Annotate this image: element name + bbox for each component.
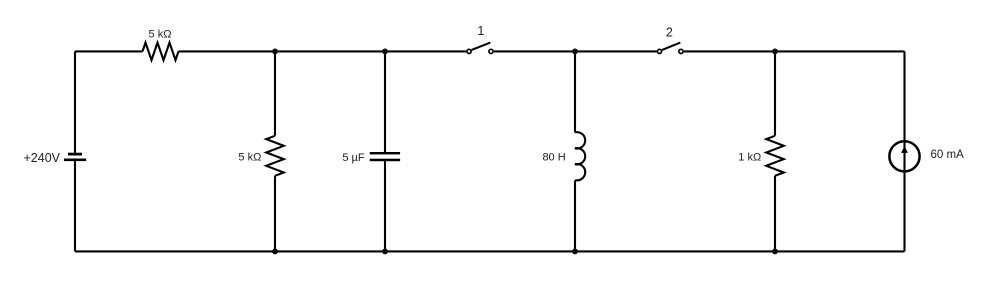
wire branch node D upper (to R3) (774, 51, 776, 135)
wire top (switch 1 to switch 2) through node at x=575 (494, 50, 657, 52)
wire branch node D lower (R3 to bottom) (774, 176, 776, 252)
wire branch node B upper (to C1) (384, 51, 386, 152)
switch S2 blade (662, 43, 680, 50)
resistor R2 5 kOhm vertical (266, 136, 284, 176)
wire branch node B lower (C1 to bottom) (384, 161, 386, 251)
svg-text:5 µF: 5 µF (342, 152, 365, 164)
svg-text:1 kΩ: 1 kΩ (738, 152, 761, 164)
svg-text:60 mA: 60 mA (931, 149, 965, 161)
resistor R3 1 kOhm vertical (766, 136, 784, 176)
current source I1 circle (889, 141, 919, 171)
capacitor C1 top plate (370, 152, 400, 154)
wire top (switch 2 to right rail) through node at x=775 (684, 50, 905, 52)
wire right rail (through current source I1) (903, 51, 905, 251)
battery V1 +240V short thick plate (68, 153, 82, 156)
resistor R1 5 kOhm horizontal (143, 43, 179, 61)
wire branch node C lower (L1 to bottom) (574, 180, 576, 251)
svg-text:1: 1 (477, 24, 484, 38)
wire branch node A lower (R2 to bottom) (274, 176, 276, 252)
inductor L1 80 H (575, 132, 585, 180)
wire top-left (left rail to R1) (75, 50, 143, 52)
junction dot bottom node A (272, 249, 278, 255)
svg-text:2: 2 (666, 26, 673, 40)
wire branch node C upper (to L1) (574, 51, 576, 132)
switch S2 left contact circle (657, 49, 661, 53)
svg-text:5 kΩ: 5 kΩ (238, 152, 261, 164)
junction dot top node B (382, 49, 388, 55)
switch S2 right contact circle (679, 49, 683, 53)
wire top (R1 to switch 1) through nodes at x=275 and x=385 (179, 50, 467, 52)
junction dot top node A (272, 49, 278, 55)
wire bottom rail (75, 250, 905, 252)
wire left rail upper (to battery) (74, 51, 76, 152)
svg-text:+240V: +240V (24, 151, 61, 165)
junction dot top node C (572, 49, 578, 55)
switch S1 left contact circle (467, 49, 471, 53)
junction dot bottom node C (572, 249, 578, 255)
svg-text:80 H: 80 H (542, 152, 565, 164)
wire left rail lower (battery to bottom) (74, 161, 76, 251)
current source I1 arrowhead (901, 146, 908, 153)
switch S1 blade (472, 43, 491, 50)
junction dot bottom node D (772, 249, 778, 255)
wire branch node A upper (to R2) (274, 51, 276, 135)
svg-text:5 kΩ: 5 kΩ (149, 29, 172, 41)
junction dot bottom node B (382, 249, 388, 255)
capacitor C1 bottom plate (370, 159, 400, 162)
junction dot top node D (772, 49, 778, 55)
battery V1 +240V long plate (64, 159, 86, 162)
switch S1 right contact circle (489, 49, 493, 53)
